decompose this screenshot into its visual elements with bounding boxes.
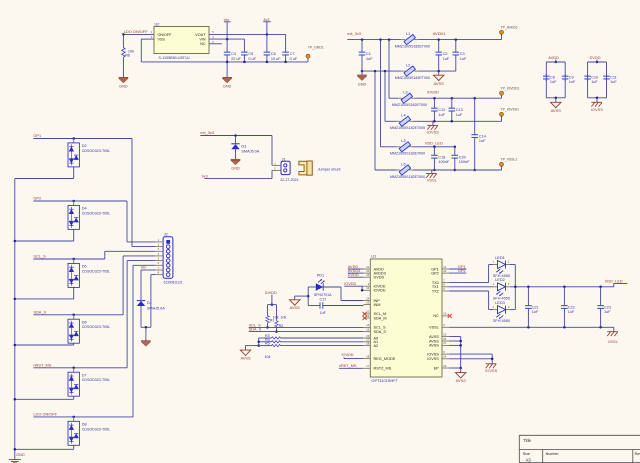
pin 12 SCL_M U1 left	[363, 313, 370, 315]
svg-text:L5: L5	[401, 138, 405, 143]
svg-text:25: 25	[366, 300, 369, 304]
pin 10 IOVDD U1 left	[363, 289, 370, 291]
wire SDA_S row	[33, 314, 123, 316]
svg-text:GND: GND	[119, 85, 128, 89]
wire SDA_S row to U1	[249, 331, 364, 333]
wire Vin down to D1	[140, 270, 142, 300]
svg-text:C11: C11	[610, 76, 617, 80]
svg-text:VDD_LED: VDD_LED	[605, 278, 623, 283]
svg-text:Number: Number	[546, 452, 560, 456]
svg-text:CDSOD323-T05L: CDSOD323-T05L	[82, 427, 110, 431]
svg-text:RSTZ_MS: RSTZ_MS	[374, 367, 392, 371]
ground IOVSS ferrite	[427, 124, 437, 126]
wire D5 return to rail	[73, 287, 75, 299]
wire D1 to gnd node	[140, 306, 142, 327]
vertical bus ext_3v3 to L5	[380, 40, 382, 147]
svg-text:VSSL: VSSL	[427, 177, 438, 182]
svg-text:AVSS: AVSS	[429, 339, 439, 343]
svg-text:24: 24	[366, 296, 369, 300]
wire RSTZ_MS	[339, 367, 363, 369]
svg-text:C14: C14	[479, 134, 486, 138]
svg-text:17: 17	[366, 364, 369, 368]
diode D1 SMAJ5.0A TVS	[137, 300, 145, 302]
svg-text:TP_AVDD1: TP_AVDD1	[501, 25, 518, 29]
svg-text:TP_IOVDD1: TP_IOVDD1	[501, 86, 520, 90]
ground AVSS under C2	[438, 71, 440, 75]
pin 3 VSSL U1 right	[442, 326, 449, 328]
svg-text:C21: C21	[532, 305, 539, 309]
svg-text:VOUT: VOUT	[195, 33, 206, 37]
capacitor C23 1uF	[600, 287, 602, 306]
op-amp U2 LDO regulator body	[154, 27, 209, 54]
connector J1 22-27-2021	[281, 161, 290, 174]
wire SDA_S to J2 pin4	[122, 256, 124, 315]
ground VSSL ferrite	[426, 173, 436, 175]
pin 4 circle J2	[166, 254, 170, 258]
wire nRST_MS to J2 pin5	[126, 261, 128, 368]
wire TX0 to LED1	[449, 282, 489, 284]
pin 4 stub J2	[155, 255, 163, 257]
pin 6 circle J2	[166, 264, 170, 268]
capacitor C7	[285, 34, 287, 52]
svg-text:MMZ1005S182ET000: MMZ1005S182ET000	[392, 103, 427, 107]
svg-text:CDSOD323-T05L: CDSOD323-T05L	[82, 269, 110, 273]
wire DVDD cap group frame	[588, 61, 607, 63]
svg-text:CDSOD323-T05L: CDSOD323-T05L	[82, 211, 110, 215]
svg-text:AVDD: AVDD	[548, 55, 559, 60]
capacitor C6 10uF	[266, 34, 268, 52]
capacitor C22 1uF	[563, 287, 565, 306]
svg-text:VSS: VSS	[158, 38, 166, 42]
pin 17 RSTZ_MS U1 left	[363, 367, 370, 369]
wire LED1 cathode	[510, 264, 515, 266]
svg-text:LDO ON/OFF: LDO ON/OFF	[33, 412, 57, 417]
svg-text:A3: A3	[526, 458, 532, 463]
pin stubs J1	[272, 164, 281, 166]
wire LED3 cathode	[510, 309, 515, 311]
capacitor C10 1uF	[587, 74, 589, 76]
wire TX1 to LED2	[449, 286, 493, 288]
pin 12 GP2 U1 right	[442, 272, 449, 274]
svg-text:ext_3v3: ext_3v3	[200, 130, 214, 135]
capacitor C9 1uF	[564, 74, 566, 76]
svg-text:J2: J2	[164, 232, 168, 237]
svg-text:C22: C22	[568, 305, 575, 309]
svg-text:SDA_S: SDA_S	[374, 330, 387, 334]
pin 5 circle J2	[166, 259, 170, 263]
resistor R4	[259, 341, 272, 343]
svg-text:28: 28	[366, 341, 369, 345]
wire IOVSS pins	[449, 353, 492, 355]
pin 1 square J2	[166, 240, 170, 244]
wire C17 to INM	[323, 305, 364, 307]
wire GP1 row	[33, 138, 132, 140]
svg-text:1uF: 1uF	[479, 139, 486, 143]
svg-text:Size: Size	[523, 452, 530, 456]
jumper shunt graphic	[299, 161, 309, 175]
svg-text:16: 16	[366, 327, 369, 331]
ferrite bead L4	[396, 120, 400, 122]
pin 2 stub J2	[155, 246, 163, 248]
wire J1 pin2 to 3v3	[271, 170, 273, 178]
svg-text:SDA_S: SDA_S	[249, 328, 262, 332]
svg-text:IOVSS: IOVSS	[591, 107, 603, 112]
svg-text:C20: C20	[459, 155, 466, 159]
svg-text:20: 20	[366, 269, 369, 273]
svg-text:22-27-2021: 22-27-2021	[280, 178, 298, 182]
wire IOVDD pins 9-10 tie	[361, 286, 363, 290]
wire address bus to AVSS	[246, 345, 259, 347]
svg-text:14: 14	[443, 355, 446, 359]
wire AVSS to node A	[295, 295, 309, 297]
wire AVDD1 row	[418, 39, 501, 41]
svg-text:1uF: 1uF	[438, 113, 445, 117]
ground VSSL right	[613, 327, 615, 331]
svg-text:Jumper shunt: Jumper shunt	[318, 168, 342, 172]
svg-text:AVSS: AVSS	[551, 108, 561, 113]
wire IOVDD row	[415, 97, 501, 99]
svg-text:21: 21	[366, 265, 369, 269]
diode D8 CDSOD323-T05L	[73, 417, 75, 421]
ground GND under C1	[357, 74, 367, 76]
wire D7 return to rail	[73, 396, 75, 399]
svg-text:INM: INM	[374, 303, 381, 307]
pin 19 DVDD U1 left	[363, 276, 370, 278]
diode D2 CDSOD323-T05L	[73, 139, 75, 143]
svg-text:29: 29	[443, 364, 446, 368]
wire VOUT row	[209, 33, 286, 35]
svg-text:0 uF: 0 uF	[248, 57, 256, 61]
pin 11 GP1 U1 right	[442, 268, 449, 270]
capacitor C13 1uF	[451, 98, 453, 108]
no-connect X SCL_M	[363, 312, 367, 316]
capacitor C1 1uF	[361, 40, 363, 53]
svg-text:Vin: Vin	[141, 265, 147, 270]
capacitor C21 1uF	[527, 287, 529, 306]
ground AVSS at EP	[456, 373, 466, 378]
svg-text:IOVDD: IOVDD	[344, 282, 356, 286]
wire NC stub	[209, 43, 222, 45]
svg-text:D3: D3	[241, 144, 246, 148]
svg-text:CDSOD323-T05L: CDSOD323-T05L	[82, 149, 110, 153]
pin 16 SDA_S U1 left	[363, 331, 370, 333]
svg-text:OPT3101RHFT: OPT3101RHFT	[372, 379, 399, 383]
svg-text:ext_3v3: ext_3v3	[347, 31, 361, 36]
pin 26 A0 U1 left	[363, 337, 370, 339]
svg-text:C13: C13	[456, 108, 463, 112]
svg-text:C6: C6	[271, 52, 276, 56]
test point TP_VSSL1	[501, 166, 503, 170]
svg-text:LDO ON/OFF: LDO ON/OFF	[124, 29, 148, 34]
wire bottom GND rail of LDO caps	[141, 61, 308, 63]
resistor R5	[259, 345, 272, 347]
svg-text:C23: C23	[604, 305, 611, 309]
resistor R2 10k	[276, 305, 278, 321]
svg-text:L2: L2	[406, 63, 410, 68]
title block frame	[519, 435, 640, 463]
pin 29 EP U1 right	[442, 367, 449, 369]
wire ext_3v3 to J1 pin1	[200, 135, 272, 137]
wire LDO ON/OFF to U2 pin ON/OFF	[123, 33, 154, 35]
svg-text:L3: L3	[403, 90, 407, 95]
svg-text:D6: D6	[82, 320, 87, 324]
pin 7 circle J2	[166, 268, 170, 272]
svg-text:C8: C8	[550, 76, 555, 80]
svg-text:12: 12	[366, 310, 369, 314]
wire D4 return to rail	[73, 229, 75, 241]
svg-text:IOVSS: IOVSS	[427, 357, 439, 361]
pin 2 circle J2	[166, 245, 170, 249]
resistor R1 10k	[267, 305, 269, 316]
svg-text:R5: R5	[265, 342, 270, 346]
svg-text:J1: J1	[282, 156, 286, 161]
svg-text:1uF: 1uF	[456, 113, 463, 117]
svg-text:GP2: GP2	[33, 196, 41, 201]
wire L2 output to AVSS and cap bottoms	[418, 70, 456, 72]
svg-text:C3: C3	[460, 52, 465, 56]
wire SCL_S row to U1	[249, 326, 364, 328]
svg-text:SFH 4550: SFH 4550	[493, 319, 510, 323]
svg-text:CDSOD323-T05L: CDSOD323-T05L	[82, 325, 110, 329]
diode D4 CDSOD323-T05L	[73, 201, 75, 205]
wire LED2 cathode to VDD_LED rail	[510, 286, 614, 288]
svg-text:1uF: 1uF	[550, 80, 557, 84]
svg-text:TP_VSSL1: TP_VSSL1	[501, 157, 518, 161]
wire VSSL row	[413, 169, 501, 171]
wire Vin vertical	[226, 22, 228, 52]
svg-text:EP: EP	[434, 366, 440, 370]
svg-text:MMZ1005S182ET000: MMZ1005S182ET000	[395, 45, 430, 49]
connector J2 61300811121	[163, 237, 173, 278]
pin 15 SCL_S U1 left	[363, 326, 370, 328]
svg-text:AVSS: AVSS	[456, 378, 466, 383]
svg-text:GP1: GP1	[33, 133, 41, 138]
pin 7 TX0 U1 right	[442, 282, 449, 284]
pin 3 stub J2	[155, 250, 163, 252]
wire left GND rail	[14, 179, 16, 460]
pin 19 NC U1 right	[442, 315, 449, 317]
wire GP2 to J2 pin1	[126, 201, 128, 242]
svg-text:S-1155B50-U5T1U: S-1155B50-U5T1U	[159, 56, 190, 60]
wire D2 return to rail	[73, 167, 75, 179]
svg-text:10k: 10k	[265, 355, 271, 359]
svg-text:SMAJ5.0A: SMAJ5.0A	[147, 306, 165, 310]
pin 1 stub J2	[155, 241, 163, 243]
ferrite bead L6	[396, 169, 400, 171]
svg-text:SDA_M: SDA_M	[374, 316, 387, 320]
pin 23 AVSS U1 right	[442, 336, 449, 338]
svg-text:C1: C1	[366, 52, 371, 56]
svg-text:C4: C4	[231, 52, 236, 56]
pin 21 AVDD U1 left	[363, 268, 370, 270]
svg-text:61300811121: 61300811121	[164, 280, 183, 284]
ferrite bead L5	[396, 146, 400, 148]
ground IOVSS at U1	[486, 363, 496, 365]
svg-text:10 uF: 10 uF	[271, 57, 281, 61]
svg-text:C9: C9	[569, 76, 574, 80]
pin 28 A2 U1 left	[363, 345, 370, 347]
wire SCL_S row	[33, 258, 104, 260]
svg-text:AVSS: AVSS	[240, 355, 250, 360]
svg-text:SCL_S: SCL_S	[33, 254, 46, 259]
no-connect X SDA_M	[363, 316, 367, 320]
svg-text:VSSL: VSSL	[429, 326, 439, 330]
ferrite bead L2	[401, 70, 405, 72]
pin 7 stub J2	[155, 269, 163, 271]
svg-text:27: 27	[443, 341, 446, 345]
wire IOVDD stem to pullups	[271, 295, 273, 305]
capacitor C11 1uF	[606, 74, 608, 76]
svg-text:GND: GND	[358, 82, 367, 86]
svg-text:D7: D7	[82, 373, 87, 377]
svg-text:SMAJ5.0A: SMAJ5.0A	[241, 150, 259, 154]
svg-text:A2: A2	[374, 344, 379, 348]
svg-text:TP_GND1: TP_GND1	[308, 45, 324, 49]
pin 27 A1 U1 left	[363, 341, 370, 343]
wire LDO ON/OFF to J2 pin6	[132, 265, 134, 417]
svg-text:IOVSS: IOVSS	[427, 352, 439, 356]
ground AVSS at address pins	[240, 350, 250, 355]
svg-text:IOVSS: IOVSS	[427, 129, 439, 134]
svg-text:C12: C12	[438, 108, 445, 112]
wire pullup top rail	[268, 304, 277, 306]
svg-text:1uF: 1uF	[443, 57, 450, 61]
svg-text:22 uF: 22 uF	[231, 57, 241, 61]
svg-text:23: 23	[443, 332, 446, 336]
svg-text:GND: GND	[231, 167, 240, 171]
wire TX2 to LED3	[449, 290, 489, 292]
svg-text:L1: L1	[406, 31, 410, 36]
LED LED3 SFH 4550	[493, 309, 498, 311]
svg-text:1uF: 1uF	[604, 310, 611, 314]
svg-text:26: 26	[366, 334, 369, 338]
svg-text:MMZ1005S182ET000: MMZ1005S182ET000	[395, 76, 430, 80]
svg-text:0 uF: 0 uF	[290, 57, 298, 61]
svg-text:DVDD: DVDD	[590, 55, 601, 60]
test point TP_AVDD1	[501, 34, 503, 39]
svg-text:R6: R6	[125, 54, 130, 58]
wire D8 return to rail	[73, 445, 75, 449]
wire IOVSS row	[413, 120, 501, 122]
svg-text:IOVDD: IOVDD	[374, 289, 386, 293]
svg-text:AVSS: AVSS	[434, 81, 444, 86]
photodiode PD1 SFH2701	[308, 286, 316, 288]
svg-text:12: 12	[443, 269, 446, 273]
op-amp U1 OPT3101 body	[370, 259, 442, 377]
diode D7 CDSOD323-T05L	[73, 368, 75, 372]
svg-text:VSSL: VSSL	[608, 339, 619, 344]
wire gnd rail to L2	[362, 70, 401, 72]
svg-text:1uF: 1uF	[460, 57, 467, 61]
svg-text:AVSS: AVSS	[429, 335, 439, 339]
svg-text:MMZ1005S182ET000: MMZ1005S182ET000	[390, 152, 425, 156]
capacitor C2 1uF	[438, 40, 440, 53]
svg-text:LED1: LED1	[495, 255, 505, 260]
svg-text:1uF: 1uF	[610, 80, 617, 84]
wire ext_3v3 top rail to L1	[347, 39, 401, 41]
ground GND under C4	[222, 77, 232, 79]
wire D3 to GND	[235, 149, 237, 159]
ferrite bead L1	[401, 39, 405, 41]
ground IOVSS cap group	[596, 98, 598, 103]
svg-text:Rev: Rev	[635, 452, 640, 456]
wire GP2 row	[33, 200, 127, 202]
wire PD1 anode node A vertical	[307, 287, 309, 306]
LED LED2 SFH 4550	[493, 286, 498, 288]
svg-text:AVDD1: AVDD1	[433, 31, 446, 36]
svg-text:100nF: 100nF	[438, 160, 449, 164]
svg-text:1uF: 1uF	[366, 57, 373, 61]
wire D6 return to rail	[73, 343, 75, 345]
svg-text:Vin: Vin	[224, 17, 230, 22]
svg-text:LED3: LED3	[495, 300, 505, 305]
wire SCL_S to J2 pin3	[104, 251, 106, 259]
pin 6 TX2 U1 right	[442, 290, 449, 292]
svg-text:3v3: 3v3	[263, 17, 269, 22]
svg-text:11: 11	[443, 265, 446, 269]
svg-text:C18: C18	[438, 155, 445, 159]
svg-text:C10: C10	[591, 76, 598, 80]
pin 26 AVSS U1 right	[442, 340, 449, 342]
wire PD1 cathode to INP	[323, 286, 341, 288]
ferrite bead L3	[398, 97, 402, 99]
wire A0 A1 A2 bus vertical	[258, 338, 260, 346]
pin 8 TX1 U1 right	[442, 286, 449, 288]
svg-text:TX2: TX2	[432, 289, 439, 293]
wire VSSL rail	[449, 326, 614, 328]
pin 5 stub J2	[155, 260, 163, 262]
svg-text:LED2: LED2	[495, 277, 505, 282]
svg-text:C5: C5	[248, 52, 253, 56]
resistor R3	[259, 337, 272, 339]
svg-text:NC: NC	[200, 42, 206, 46]
svg-text:VDD_LED: VDD_LED	[425, 140, 443, 145]
svg-text:U2: U2	[155, 21, 160, 26]
svg-text:1uF: 1uF	[569, 80, 576, 84]
svg-text:L6: L6	[401, 161, 405, 166]
capacitor C14 1uF	[474, 98, 476, 135]
svg-text:C7: C7	[290, 52, 295, 56]
wire Vin pin7	[141, 269, 155, 271]
net label VDD_LED right	[613, 284, 615, 287]
wire AVSS pins to vertical	[449, 336, 461, 338]
svg-text:MMZ1005S182ET000: MMZ1005S182ET000	[390, 175, 425, 179]
svg-text:10: 10	[366, 286, 369, 290]
diode D6 CDSOD323-T05L	[73, 315, 75, 319]
svg-text:AVSS: AVSS	[429, 344, 439, 348]
svg-text:Title: Title	[523, 438, 531, 443]
svg-text:TP_IOVSS1: TP_IOVSS1	[501, 107, 520, 111]
no-connect X at NC pin	[448, 314, 452, 318]
ground AVSS cap group	[555, 98, 557, 103]
svg-text:NC: NC	[433, 314, 439, 318]
diode D5 CDSOD323-T05L	[73, 259, 75, 263]
capacitor C17 1uF series INM	[308, 305, 320, 307]
svg-text:27: 27	[366, 338, 369, 342]
svg-text:PD1: PD1	[317, 274, 324, 278]
pin 3 circle J2	[166, 250, 170, 254]
capacitor C4 22uF	[226, 51, 228, 53]
test point TP_GND1	[307, 58, 309, 62]
svg-text:1uF: 1uF	[568, 310, 575, 314]
svg-text:SFH2701A: SFH2701A	[314, 293, 332, 297]
wire nRST_MS row	[33, 367, 127, 369]
svg-text:18: 18	[366, 354, 369, 358]
LED LED1 SFH 4550	[493, 264, 498, 266]
capacitor C8 1uF	[545, 74, 547, 76]
svg-text:U1: U1	[371, 254, 376, 259]
ground AVSS at PD1	[290, 300, 300, 305]
